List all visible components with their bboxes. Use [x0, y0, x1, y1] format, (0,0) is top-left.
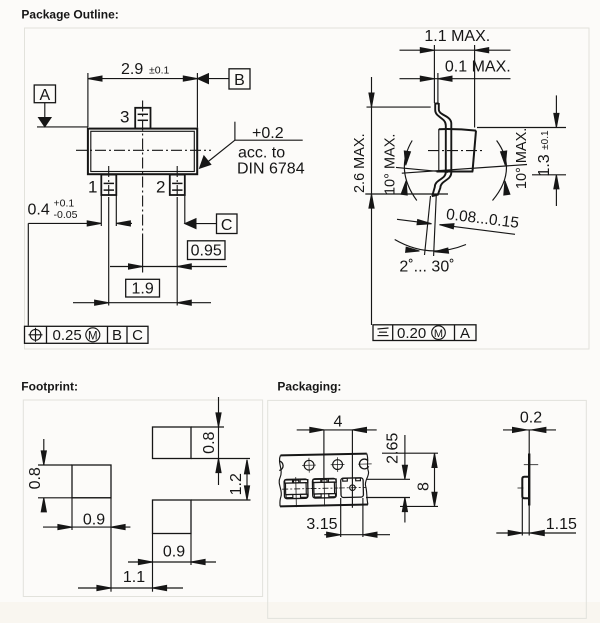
svg-text:B: B [112, 327, 122, 344]
svg-text:10° MAX.: 10° MAX. [514, 128, 530, 189]
svg-text:1.1 MAX.: 1.1 MAX. [424, 28, 490, 45]
draft angle thin line right [402, 165, 527, 174]
partial hole left end [279, 461, 283, 471]
dimension 1.9 [73, 279, 211, 305]
centerline body side view [428, 150, 484, 152]
dimension 1.1 MAX [400, 28, 511, 53]
feature control frame 0.20 M A [373, 325, 476, 342]
svg-text:±0.1: ±0.1 [149, 65, 170, 77]
dimension 1.1 footprint [78, 534, 183, 592]
tape left torn edge [279, 455, 282, 506]
sprocket hole 3 (torn) [359, 459, 368, 469]
svg-text:Packaging:: Packaging: [277, 379, 341, 393]
dimension 8 tape width [382, 453, 438, 506]
svg-text:1: 1 [88, 178, 97, 197]
dimension 2.6 MAX [352, 77, 448, 325]
dimension 0.8 right pad2 [191, 397, 250, 485]
dimension 2.9 +-0.1 [88, 61, 197, 128]
svg-text:+0.1: +0.1 [54, 198, 75, 210]
svg-text:0.8: 0.8 [201, 431, 218, 453]
datum B [197, 69, 250, 89]
svg-text:4: 4 [334, 414, 343, 431]
svg-text:8: 8 [416, 482, 433, 491]
tape top edge [280, 454, 366, 456]
dimension 3.15 [306, 498, 390, 537]
svg-text:0.2: 0.2 [520, 410, 542, 427]
dimension 0.1 MAX [400, 59, 511, 82]
dimension 1.2 [191, 460, 251, 500]
dimension 0.08...0.15 [397, 206, 520, 234]
svg-text:acc. to: acc. to [238, 145, 285, 162]
svg-text:0.20: 0.20 [397, 325, 426, 342]
draft angle thin line left [396, 167, 448, 172]
svg-text:2: 2 [156, 178, 165, 197]
svg-text:+0.2: +0.2 [252, 125, 284, 142]
svg-text:2.6 MAX.: 2.6 MAX. [352, 133, 368, 193]
centerline horizontal body [76, 149, 211, 151]
svg-text:C: C [132, 327, 143, 344]
tape right torn edge [365, 454, 370, 505]
pocket 1 with component [282, 477, 310, 508]
tape side view [496, 410, 577, 536]
bump centerline tick [518, 487, 524, 489]
dimension 1.3 +-0.1 [477, 95, 566, 206]
emboss bump [522, 477, 529, 499]
dimension 0.8 left [27, 439, 111, 512]
svg-text:0.1 MAX.: 0.1 MAX. [445, 59, 511, 76]
tape sheet edge-on [528, 430, 530, 454]
arc 10 deg right [493, 141, 510, 201]
body outline front view [88, 129, 197, 175]
svg-text:0.25: 0.25 [53, 327, 82, 344]
svg-text:0.4: 0.4 [28, 202, 50, 219]
svg-text:M: M [434, 328, 443, 340]
svg-text:A: A [39, 87, 50, 104]
svg-text:B: B [234, 72, 245, 89]
dimension 0.4 with tolerances [28, 195, 133, 326]
dimension 0.95 [110, 241, 227, 269]
extension line body right top [474, 45, 476, 128]
pin 1 [101, 175, 116, 195]
svg-text:1.15: 1.15 [546, 516, 577, 533]
datum A [34, 85, 88, 127]
dimension 4 tape [297, 414, 377, 508]
svg-text:1.9: 1.9 [131, 280, 153, 297]
bottom band [0, 602, 600, 623]
feature control frame position 0.25 M B C [25, 326, 149, 344]
tape bottom edge [280, 504, 368, 506]
svg-text:DIN 6784: DIN 6784 [237, 161, 305, 178]
centerline vertical body [142, 101, 144, 236]
svg-text:2˚... 30˚: 2˚... 30˚ [399, 259, 454, 276]
svg-text:0.9: 0.9 [163, 543, 185, 560]
tape drawing group (tilted) [279, 454, 373, 508]
centerline pin 2 [176, 166, 178, 197]
hole centerline tick [524, 464, 538, 466]
svg-text:C: C [221, 217, 233, 234]
svg-text:10° MAX.: 10° MAX. [383, 134, 399, 195]
svg-text:Package Outline:: Package Outline: [21, 8, 118, 22]
datum C [185, 195, 237, 234]
annotation +0.2 acc. to DIN 6784 [200, 122, 305, 178]
svg-text:0.9: 0.9 [83, 512, 105, 529]
dimension 0.9 pad3 [128, 534, 216, 566]
svg-text:A: A [460, 325, 470, 342]
sprocket hole 2 [333, 460, 343, 470]
pin 3 [135, 108, 150, 129]
lead side view [432, 103, 452, 196]
svg-text:-0.05: -0.05 [54, 209, 78, 221]
centerline pin 1 [108, 166, 110, 197]
svg-text:0.8: 0.8 [27, 467, 44, 489]
svg-text:3: 3 [120, 108, 129, 127]
pocket 3 empty [339, 478, 367, 498]
pad 1 [72, 465, 111, 498]
arc 10 deg left [401, 141, 417, 201]
svg-text:2.65: 2.65 [385, 433, 402, 464]
sprocket hole 1 [304, 460, 314, 470]
faint frame footprint section [23, 400, 262, 597]
pad 2 [153, 427, 192, 459]
lead foot angle thin lines [425, 196, 431, 255]
faint frame packaging section [268, 400, 587, 618]
svg-text:Footprint:: Footprint: [21, 379, 78, 393]
pad 3 [153, 500, 192, 534]
faint frame package outline section [25, 28, 590, 349]
svg-text:M: M [88, 330, 98, 342]
svg-text:3.15: 3.15 [306, 516, 337, 533]
svg-text:1.2: 1.2 [228, 473, 245, 495]
dimension 1.15 [521, 498, 523, 535]
body side view [437, 129, 477, 172]
dimension 2.65 [366, 433, 410, 523]
svg-text:0.95: 0.95 [191, 242, 222, 259]
arc 2..30 deg [395, 240, 466, 254]
svg-text:2.9: 2.9 [121, 61, 143, 78]
dimension 0.9 pad1 [43, 498, 130, 592]
extension lines lead top [433, 45, 435, 103]
pocket 2 with component [310, 476, 338, 507]
pin 2 [170, 175, 185, 195]
svg-text:1.1: 1.1 [123, 569, 145, 586]
